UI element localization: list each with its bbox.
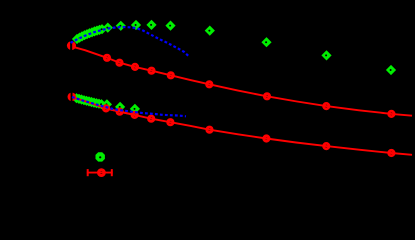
lower series start marker (red disc with slot): [68, 92, 77, 101]
lower green diamond series (sparse points): [102, 99, 140, 114]
legend green filled dot: [96, 152, 105, 161]
upper green diamond series (sparse points): [103, 20, 396, 75]
lower green diamond series (dense cluster): [71, 93, 106, 109]
upper green diamond series (dense cluster): [72, 24, 107, 44]
legend red point with horizontal error bar: [87, 169, 113, 176]
lower red line over diamonds: [72, 97, 135, 115]
lower blue dashed curve: [72, 97, 186, 116]
upper series start marker (red disc with slot): [67, 41, 76, 51]
lower red circle markers: [103, 106, 394, 156]
upper red model curve: [67, 45, 412, 116]
upper red circle markers: [104, 55, 394, 117]
upper blue dashed curve: [71, 27, 190, 57]
lower red model curve: [72, 97, 413, 155]
